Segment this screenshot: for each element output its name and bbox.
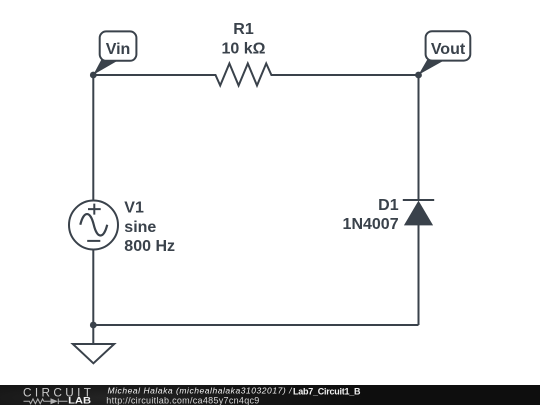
svg-text:1N4007: 1N4007 [343, 216, 399, 233]
svg-text:D1: D1 [378, 197, 399, 214]
svg-text:Micheal Halaka (michealhalaka3: Micheal Halaka (michealhalaka31032017) / [108, 385, 294, 395]
svg-text:Lab7_Circuit1_B: Lab7_Circuit1_B [293, 386, 361, 396]
svg-text:http://circuitlab.com/ca485y7c: http://circuitlab.com/ca485y7cn4qc9 [106, 395, 259, 405]
svg-text:Vin: Vin [106, 41, 131, 58]
svg-text:R1: R1 [233, 21, 254, 38]
svg-text:LAB: LAB [68, 395, 92, 405]
svg-text:10 kΩ: 10 kΩ [222, 40, 266, 57]
svg-text:800 Hz: 800 Hz [124, 238, 175, 255]
svg-text:V1: V1 [124, 199, 144, 216]
svg-text:sine: sine [124, 219, 156, 236]
svg-text:Vout: Vout [431, 41, 466, 58]
